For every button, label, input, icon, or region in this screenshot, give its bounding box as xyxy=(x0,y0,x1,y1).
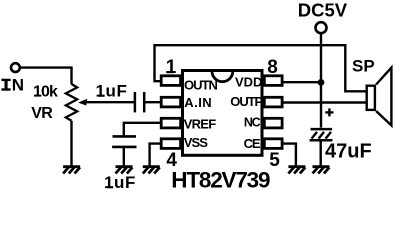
pin label VSS xyxy=(184,135,208,150)
label 1uF (C1) xyxy=(96,82,128,101)
svg-text:OUTP: OUTP xyxy=(230,94,263,109)
pin label NC xyxy=(244,115,261,129)
pin number 8 xyxy=(267,57,278,78)
amplifier IC U1 HT82V739 body xyxy=(183,71,263,156)
potentiometer VR1 10k resistor body xyxy=(66,84,77,121)
svg-text:1: 1 xyxy=(166,57,177,78)
wire C2 to ground xyxy=(123,148,125,166)
svg-text:NC: NC xyxy=(244,115,261,129)
pin label CE xyxy=(244,136,261,151)
capacitor C3 47uF plus sign xyxy=(325,108,333,116)
pin box 3 VREF xyxy=(161,118,180,128)
pin box 8 VDD xyxy=(264,76,282,86)
svg-text:5: 5 xyxy=(269,150,280,171)
pin box 4 VSS xyxy=(161,139,180,149)
pin box 7 OUTP xyxy=(264,97,282,107)
wire C1 to pin 2 A.IN xyxy=(145,101,160,103)
svg-text:VDD: VDD xyxy=(235,75,262,90)
svg-text:1uF: 1uF xyxy=(96,82,128,101)
ground (CE) xyxy=(288,167,305,174)
svg-text:VSS: VSS xyxy=(184,135,208,150)
wire potentiometer bottom to ground xyxy=(70,121,72,166)
pin box 5 CE xyxy=(264,139,282,149)
label DC5V xyxy=(298,0,348,21)
svg-text:DC5V: DC5V xyxy=(298,0,348,21)
potentiometer wiper arrow xyxy=(78,99,135,106)
ground (VSS) xyxy=(143,167,160,174)
capacitor C3 47uF (polarized) xyxy=(310,129,333,140)
pin label VREF xyxy=(184,116,217,131)
pin number 5 xyxy=(269,150,280,171)
pin box 6 NC xyxy=(264,118,282,128)
label 1uF (C2) xyxy=(104,173,136,192)
pin number 4 xyxy=(166,150,177,171)
label IN xyxy=(1,76,24,95)
label 47uF xyxy=(325,140,372,162)
capacitor C2 1uF (VREF bypass) xyxy=(112,136,136,147)
svg-text:1uF: 1uF xyxy=(104,173,136,192)
wire pin 5 CE to ground xyxy=(283,144,296,166)
junction node VDD/DC5V xyxy=(318,79,325,86)
wire pin 4 VSS to ground xyxy=(150,144,161,166)
wire IN to potentiometer top xyxy=(20,68,71,85)
svg-text:VR: VR xyxy=(31,105,53,122)
svg-text:A.IN: A.IN xyxy=(184,95,212,110)
wire pin 3 VREF to C2 xyxy=(124,123,161,136)
svg-text:47uF: 47uF xyxy=(325,140,372,162)
wire pin 8 VDD to supply rail xyxy=(283,81,322,83)
ground (C3) xyxy=(313,167,330,174)
pin box 1 OUTN xyxy=(161,76,180,86)
svg-text:VREF: VREF xyxy=(184,116,217,131)
pin label OUTP xyxy=(230,94,263,109)
pin number 1 xyxy=(166,57,177,78)
speaker SP cone xyxy=(376,68,391,126)
wire DC5V supply rail vertical xyxy=(320,33,322,128)
label SP xyxy=(352,57,375,76)
label VR xyxy=(31,105,53,122)
pin label OUTN xyxy=(184,78,217,93)
ground (C2) xyxy=(116,167,133,174)
wire OUTN pin 1 over the top to speaker xyxy=(155,45,366,91)
svg-text:N: N xyxy=(12,76,24,95)
label HT82V739 xyxy=(171,168,270,193)
svg-text:8: 8 xyxy=(267,57,278,78)
label 10k xyxy=(33,84,58,101)
svg-text:SP: SP xyxy=(352,57,375,76)
speaker SP driver xyxy=(367,86,375,110)
svg-text:HT82V739: HT82V739 xyxy=(171,168,270,193)
svg-text:OUTN: OUTN xyxy=(184,78,217,93)
terminal IN xyxy=(11,63,20,72)
pin label A.IN xyxy=(184,95,212,110)
wire pin 7 OUTP to speaker xyxy=(283,101,366,103)
svg-text:CE: CE xyxy=(244,136,261,151)
U1 pin-1 notch xyxy=(212,71,233,81)
wire C3 to ground xyxy=(320,141,322,165)
capacitor C1 1uF (series, input) xyxy=(135,92,144,112)
pin box 2 A.IN xyxy=(161,97,180,107)
ground (potentiometer) xyxy=(63,167,80,174)
pin label VDD xyxy=(235,75,262,90)
terminal DC5V xyxy=(316,22,327,33)
svg-text:10k: 10k xyxy=(33,84,58,101)
